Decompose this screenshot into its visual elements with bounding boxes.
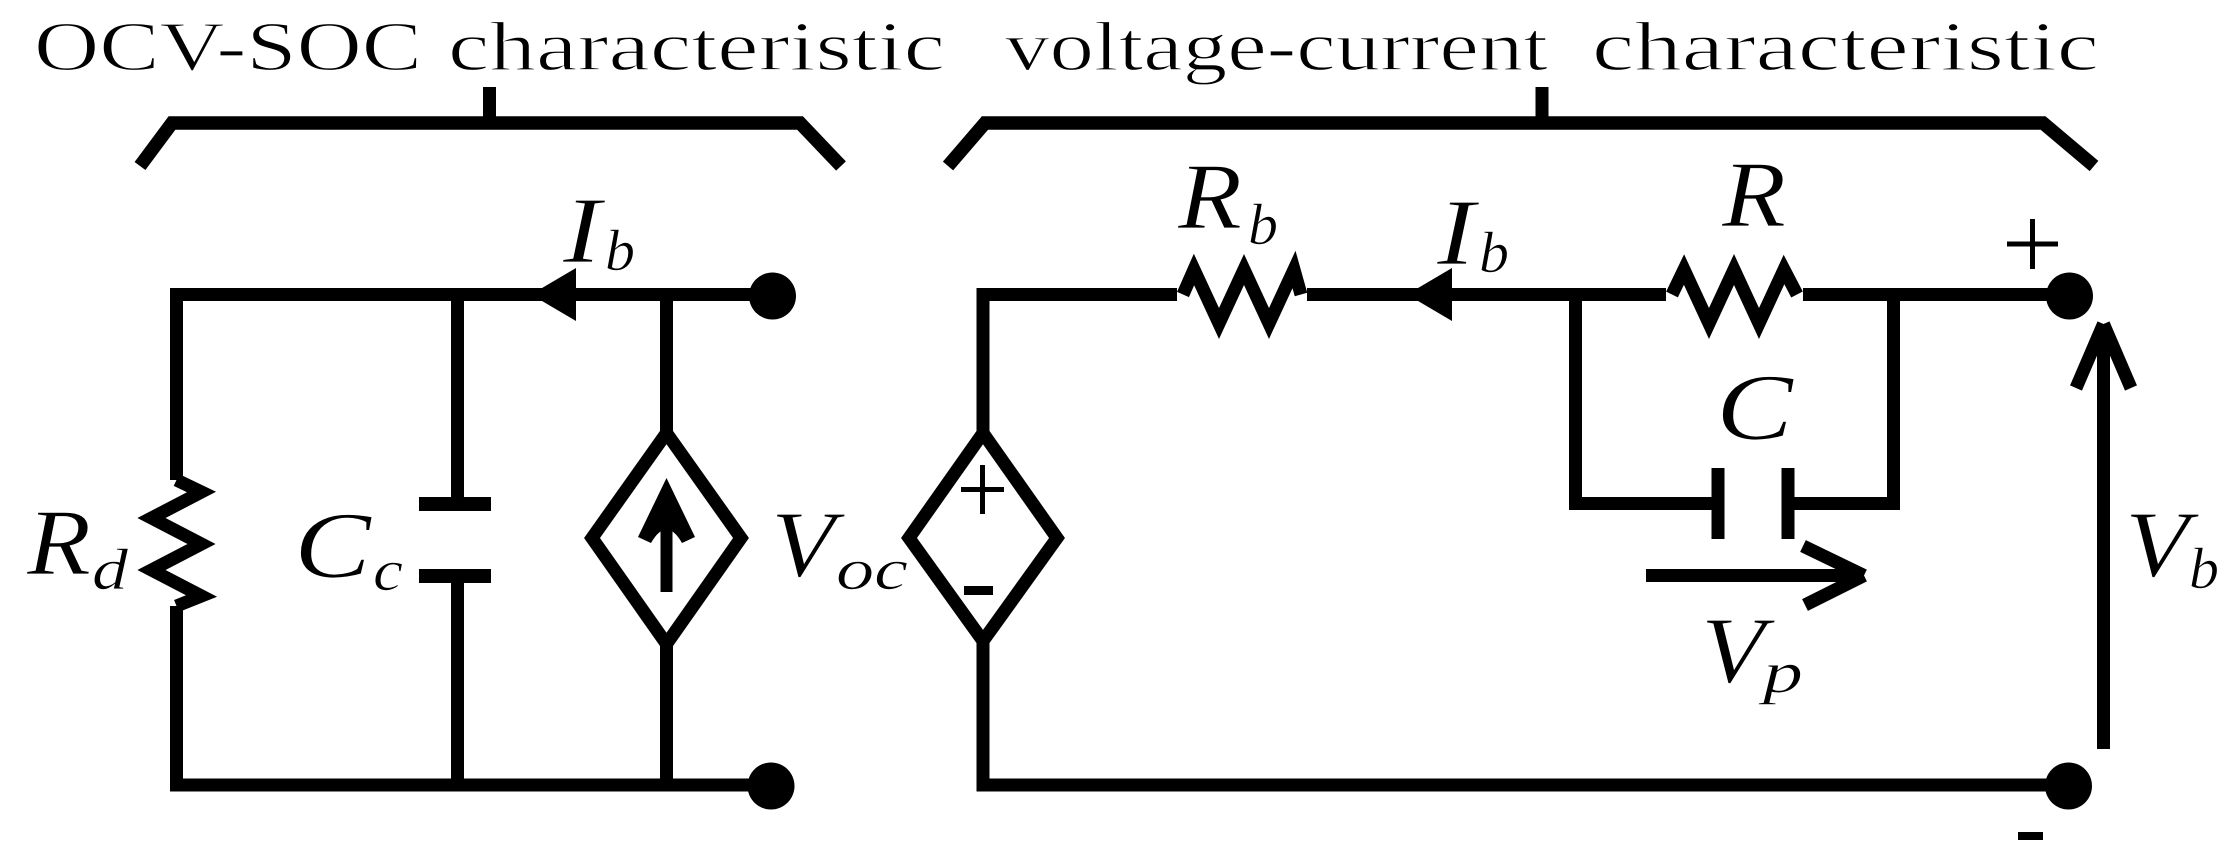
svg-text:c: c xyxy=(373,538,403,603)
title OCV-SOC characteristic xyxy=(34,9,945,86)
svg-text:oc: oc xyxy=(836,537,908,602)
label C xyxy=(1716,356,1795,460)
wire: top wire middle segment xyxy=(1307,288,1666,301)
wire: capacitor loop left xyxy=(1576,295,1713,504)
svg-text:b: b xyxy=(1248,192,1278,257)
arrow Vb xyxy=(2097,327,2110,749)
plus sign terminal xyxy=(2007,219,2058,269)
svg-text:characteristic: characteristic xyxy=(448,9,945,86)
wire: Cc lower lead xyxy=(451,583,464,785)
minus sign terminal xyxy=(2018,832,2043,840)
label Ib right xyxy=(1436,181,1509,285)
node dot right top xyxy=(2046,273,2093,320)
svg-text:C: C xyxy=(294,494,373,598)
svg-text:I: I xyxy=(1436,181,1480,285)
capacitor C plate left xyxy=(1712,468,1725,539)
brace left group xyxy=(140,123,841,166)
wire: left vertical lower + bottom wire xyxy=(177,606,772,785)
label Cc xyxy=(294,494,403,603)
label R xyxy=(1721,143,1786,247)
minus sign in diamond xyxy=(964,586,993,595)
plus sign in diamond xyxy=(961,465,1004,514)
current source arrow xyxy=(661,505,673,592)
arrow Vp xyxy=(1646,569,1858,582)
arrow Ib right xyxy=(1407,268,1452,321)
svg-text:V: V xyxy=(771,493,846,597)
voltage source diamond Voc xyxy=(909,433,1057,641)
wire: right circuit top-left corner to Rb xyxy=(983,295,1177,434)
svg-text:b: b xyxy=(605,218,635,283)
capacitor Cc xyxy=(419,497,491,511)
svg-text:voltage-current: voltage-current xyxy=(1005,9,1549,86)
wire: current source lower lead xyxy=(660,644,673,785)
wire: left circuit top + left vertical upper xyxy=(177,295,773,481)
wire: top wire right segment xyxy=(1803,288,2069,301)
wire: Cc upper lead xyxy=(451,295,464,498)
svg-text:OCV-SOC: OCV-SOC xyxy=(34,9,422,86)
svg-text:b: b xyxy=(2189,536,2219,601)
label Rd xyxy=(26,491,129,602)
svg-text:C: C xyxy=(1716,356,1795,460)
resistor Rd xyxy=(152,480,202,606)
node dot left top xyxy=(749,273,796,320)
node dot right bottom xyxy=(2045,763,2092,810)
svg-text:characteristic: characteristic xyxy=(1592,9,2099,86)
svg-text:R: R xyxy=(1177,145,1242,249)
label Voc xyxy=(771,493,908,602)
arrow Ib left xyxy=(531,268,576,321)
node dot left bottom xyxy=(748,763,795,810)
current source diamond xyxy=(592,433,741,644)
wire: capacitor loop right xyxy=(1794,295,1894,504)
capacitor C plate right xyxy=(1782,468,1795,539)
title voltage-current characteristic xyxy=(1005,9,2099,86)
svg-text:b: b xyxy=(1479,220,1509,285)
svg-text:d: d xyxy=(92,537,129,602)
svg-text:p: p xyxy=(1757,640,1803,705)
label Ib left xyxy=(562,179,635,283)
brace right group xyxy=(948,123,2094,166)
label Vb xyxy=(2125,493,2219,601)
svg-text:R: R xyxy=(1721,143,1786,247)
label Vp xyxy=(1701,599,1803,705)
resistor Rb xyxy=(1183,270,1301,324)
wire: current source upper lead xyxy=(660,295,673,434)
label Rb xyxy=(1177,145,1278,257)
wire: voltage source lower lead + bottom wire xyxy=(983,641,2068,785)
svg-text:I: I xyxy=(562,179,606,283)
resistor R xyxy=(1672,270,1797,324)
svg-text:R: R xyxy=(26,491,91,595)
